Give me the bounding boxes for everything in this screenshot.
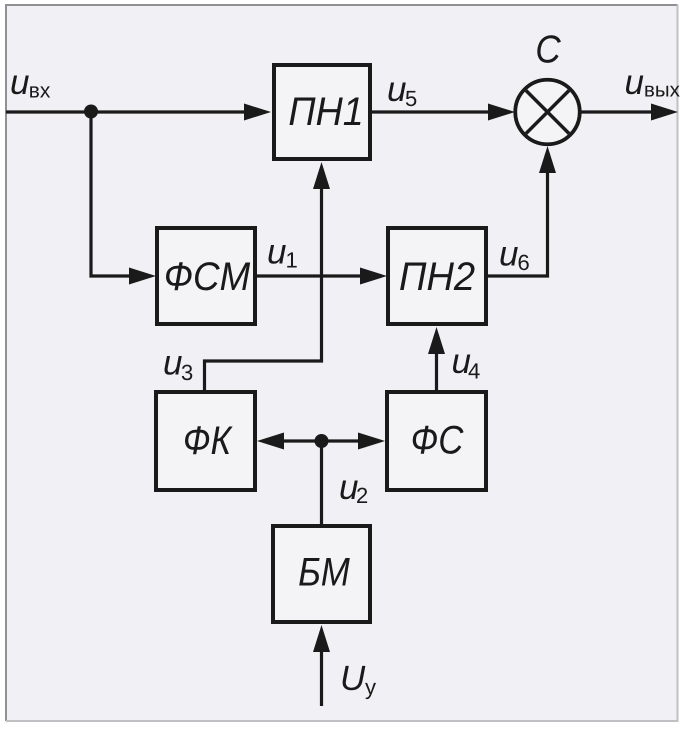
arrow output	[651, 104, 678, 121]
label u_1	[269, 245, 297, 268]
block PN1	[274, 65, 370, 159]
arrow into PN2 left	[360, 268, 387, 285]
block FS	[387, 392, 486, 490]
label u_6	[501, 247, 529, 270]
wire FSM to PN2	[257, 274, 368, 277]
wire U_y into BM	[320, 645, 323, 706]
arrow into multiplier left	[488, 104, 515, 121]
arrow into FSM left	[129, 268, 156, 285]
node input junction	[84, 105, 98, 119]
label u_4	[453, 355, 480, 379]
arrow into BM bottom	[313, 625, 330, 652]
block BM	[273, 526, 370, 622]
arrow into FS left	[358, 433, 385, 450]
wire junction down to BM	[320, 441, 323, 524]
wire PN1 to multiplier	[372, 110, 496, 113]
wire junction down to FSM	[91, 112, 138, 276]
label u_vx	[12, 76, 51, 98]
wire multiplier to output	[581, 110, 660, 113]
arrow into multiplier bottom	[539, 146, 556, 173]
block PN2	[388, 228, 486, 324]
wire FS up to PN2 bottom	[435, 347, 438, 390]
block FK	[156, 392, 255, 490]
block FSM	[157, 228, 255, 324]
wire between FK and FS	[276, 439, 366, 442]
arrow into PN1 left	[244, 104, 271, 121]
node middle junction	[315, 434, 329, 448]
wire input horizontal	[6, 110, 252, 113]
label u_2	[341, 481, 368, 504]
label u_3	[165, 356, 193, 380]
label u_vyh	[626, 76, 680, 97]
arrow into PN1 bottom	[313, 162, 330, 189]
arrow into PN2 bottom	[428, 327, 445, 354]
label C	[537, 35, 561, 63]
label U_y	[343, 666, 376, 699]
arrow into FK right	[257, 433, 284, 450]
wire PN2 up to multiplier	[488, 166, 548, 276]
multiplier C (circle with X)	[515, 80, 580, 145]
label u_5	[389, 83, 417, 107]
wire FK up jog to PN1 bottom	[205, 182, 322, 390]
